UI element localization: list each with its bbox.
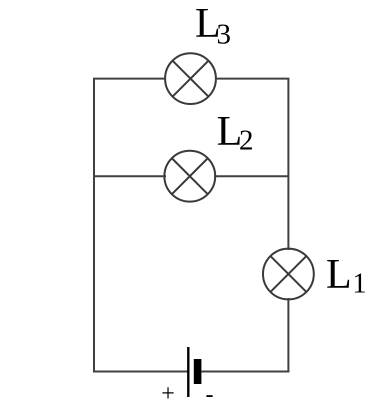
label L2 xyxy=(217,109,254,157)
wire bottom horizontal right segment xyxy=(201,371,289,373)
wire top horizontal right segment xyxy=(215,78,289,80)
battery B1 negative plate (short thick) xyxy=(194,359,202,384)
svg-text:1: 1 xyxy=(353,269,367,300)
svg-text:L: L xyxy=(326,252,352,298)
svg-text:-: - xyxy=(206,382,214,408)
wire middle horizontal right segment xyxy=(214,175,288,177)
lamp L3 xyxy=(165,53,216,104)
wire left vertical xyxy=(93,79,95,372)
wire right vertical lower (L1 to bottom corner) xyxy=(287,298,289,372)
svg-text:3: 3 xyxy=(217,19,232,51)
svg-text:+: + xyxy=(161,381,175,407)
wire middle horizontal left segment xyxy=(94,175,166,177)
svg-text:2: 2 xyxy=(239,125,254,157)
lamp L2 xyxy=(164,151,215,202)
label L3 xyxy=(195,1,231,51)
wire right vertical upper (top corner to L1) xyxy=(287,79,289,250)
lamp L1 xyxy=(263,249,314,300)
wire top horizontal left segment xyxy=(93,78,166,80)
label L1 xyxy=(326,252,367,300)
battery polarity label - xyxy=(206,382,214,408)
wire bottom horizontal left segment xyxy=(93,371,188,373)
battery B1 positive plate (long thin) xyxy=(187,347,189,397)
battery polarity label + xyxy=(161,381,175,407)
